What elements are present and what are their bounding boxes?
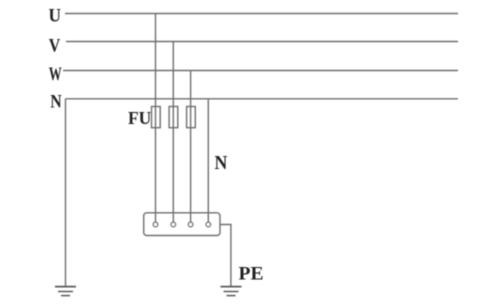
wire N phase horizontal (66, 98, 459, 100)
svg-text:U: U (49, 6, 62, 27)
svg-text:W: W (49, 64, 62, 85)
wire N drop (207, 99, 209, 223)
svg-text:PE: PE (239, 264, 264, 285)
fuse FU element 1 (152, 107, 161, 128)
wire PE from terminal block to ground (220, 225, 231, 287)
fuse FU element 3 (187, 107, 196, 128)
wire W phase horizontal (63, 70, 458, 72)
terminal circle 1 (153, 222, 158, 227)
ground symbol PE right (221, 287, 242, 296)
terminal block (144, 213, 220, 236)
svg-text:N: N (50, 92, 62, 113)
svg-text:V: V (49, 35, 61, 56)
svg-text:FU: FU (128, 108, 151, 128)
wire V phase horizontal (66, 41, 458, 43)
ground symbol left (55, 287, 76, 296)
wire U phase horizontal (65, 13, 458, 15)
wire U drop (155, 14, 157, 223)
terminal circle 3 (188, 222, 193, 227)
fuse FU element 2 (169, 107, 178, 128)
wire W drop (190, 71, 192, 223)
wire V drop (172, 42, 174, 223)
svg-text:N: N (215, 153, 228, 174)
wire left N drop to ground (65, 99, 67, 286)
terminal circle 4 (206, 222, 211, 227)
terminal circle 2 (171, 222, 176, 227)
